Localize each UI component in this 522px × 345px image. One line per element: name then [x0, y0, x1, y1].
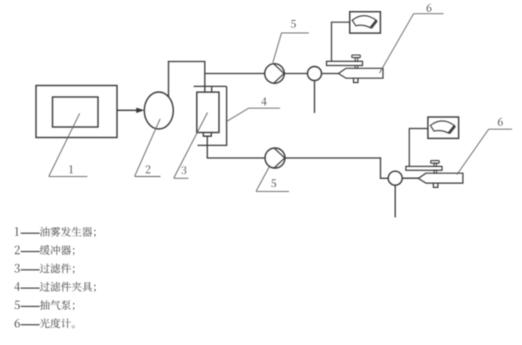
wire: buffer top riser — [168, 62, 170, 98]
buffer 2 (ellipse) — [144, 92, 173, 129]
filter holder 4 bottom plate line — [198, 144, 228, 146]
wire: junction exhaust down (lower) — [394, 185, 396, 217]
valve knob cap (lower photometer) — [431, 161, 440, 164]
wire: bend to junction (lower) — [380, 177, 388, 179]
wire: branch to upper pump — [205, 73, 265, 75]
oil mist generator box 1 (inner screen) — [53, 97, 99, 127]
valve knob cap (upper photometer) — [352, 55, 361, 58]
valve stem upper (upper photometer) — [355, 58, 358, 62]
legend line 6: 6——光度计。 — [15, 318, 75, 328]
wire: top horizontal run — [168, 61, 205, 63]
wire: junction exhaust down (upper) — [314, 81, 316, 114]
photometer tube 6 (lower) — [418, 173, 463, 183]
filter bottom nub — [203, 133, 211, 137]
photometer meter 6 (upper) — [350, 12, 381, 33]
legend line 3: 3——过滤件； — [15, 264, 75, 274]
oil mist generator box 1 (outer) — [36, 86, 117, 138]
wire: down leg into filter — [204, 61, 206, 92]
junction node (upper) — [308, 67, 322, 81]
wire: arrow from generator to buffer — [117, 109, 137, 111]
leader + label 6 (lower) — [457, 129, 489, 174]
wire: lower run to pump — [207, 157, 265, 159]
leader + label 3 — [174, 113, 208, 179]
leader + label 5 (upper) — [273, 33, 282, 63]
wire: junction to photometer tube (upper) — [322, 73, 340, 75]
wire: lower bend down — [380, 157, 382, 178]
filter holder 4 right side — [226, 86, 228, 145]
leader + label 1 — [49, 113, 80, 176]
filter holder 4 top plate line — [194, 85, 227, 87]
filter element 3 (body) — [197, 92, 219, 132]
valve stem upper (lower photometer) — [434, 163, 437, 166]
junction node (lower) — [388, 171, 402, 185]
legend line 2: 2——缓冲器； — [15, 245, 75, 255]
wire: meter lead (upper) — [332, 22, 351, 61]
legend line 1: 1——油雾发生器； — [15, 227, 96, 237]
wire: junction to photometer tube (lower) — [402, 177, 419, 179]
wire: meter lead (lower) — [409, 129, 428, 167]
leader + label 2 — [135, 119, 160, 176]
leader + label 5 (lower) — [256, 167, 269, 191]
legend line 4: 4——过滤件夹具； — [14, 282, 95, 292]
photometer plate (upper) — [327, 61, 363, 65]
leader + label 6 (upper) — [380, 14, 414, 73]
valve stem lower (upper photometer) — [355, 66, 358, 69]
wire: lower pump outlet run — [285, 157, 381, 159]
wire: filter outlet down — [206, 136, 208, 158]
photometer meter 6 (lower) — [428, 117, 459, 138]
leader + label 4 — [227, 108, 249, 121]
photometer plate (lower) — [406, 166, 442, 170]
vacuum pump 5 (lower) — [265, 148, 285, 168]
wire: pump to junction (upper) — [284, 73, 307, 75]
photometer tube 6 (upper) — [338, 68, 383, 78]
filter top nub right side — [211, 86, 213, 92]
vacuum pump 5 (upper) — [265, 64, 285, 84]
valve stem lower (lower photometer) — [434, 170, 437, 173]
legend line 5: 5——抽气泵； — [15, 300, 75, 310]
